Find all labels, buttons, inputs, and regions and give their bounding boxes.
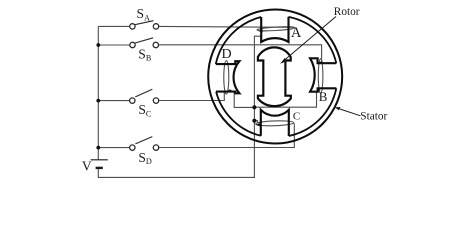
svg-text:D: D xyxy=(222,47,232,62)
svg-text:V: V xyxy=(82,158,92,173)
svg-text:A: A xyxy=(291,25,302,41)
svg-text:Rotor: Rotor xyxy=(334,6,360,18)
svg-text:Stator: Stator xyxy=(360,110,387,122)
svg-text:B: B xyxy=(319,89,328,104)
svg-text:C: C xyxy=(293,111,300,123)
